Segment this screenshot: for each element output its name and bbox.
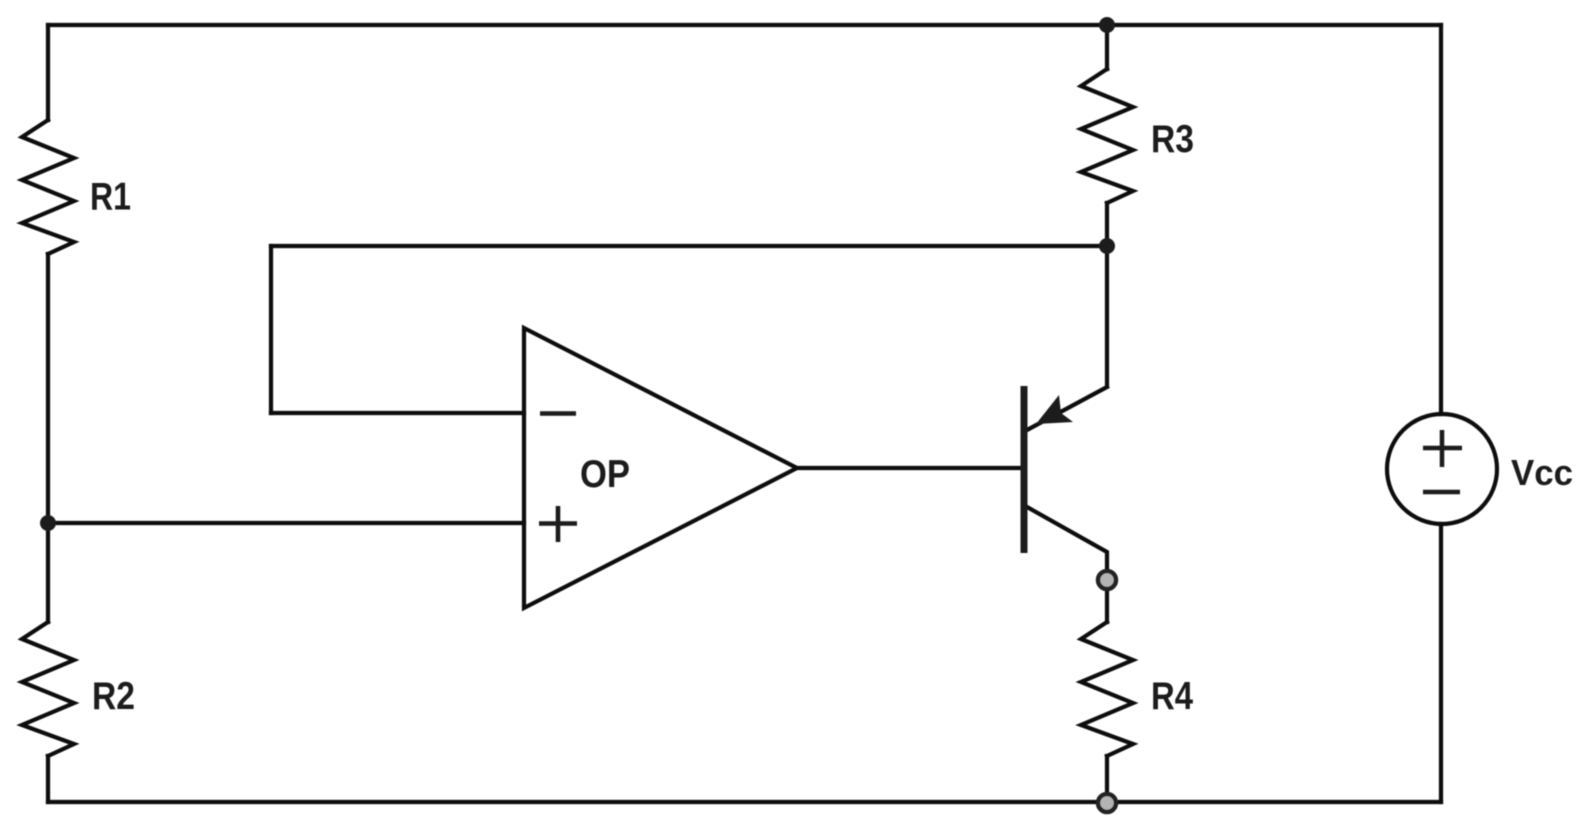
- wire bottom rail: [48, 800, 1441, 804]
- wire op-amp output to base: [797, 466, 1021, 470]
- node junction top rail / R3: [1099, 17, 1115, 33]
- transistor Q1 emitter arrow: [1036, 395, 1073, 424]
- wire left rail lower: [46, 756, 50, 802]
- resistor R2: [22, 622, 74, 756]
- wire R4 top lead: [1105, 592, 1109, 622]
- wire top rail: [48, 23, 1441, 27]
- svg-text:OP: OP: [580, 453, 630, 496]
- wire left rail upper: [46, 25, 50, 120]
- wire feedback left vertical: [269, 246, 273, 413]
- node junction feedback / collector: [1099, 238, 1115, 254]
- node junction left rail / non-inverting input: [40, 515, 56, 531]
- wire feedback top segment: [271, 244, 1107, 248]
- wire R4 bottom lead: [1105, 756, 1109, 792]
- wire non-inverting input: [48, 521, 524, 525]
- wire left rail middle: [46, 254, 50, 622]
- node terminal emitter (gray): [1098, 571, 1116, 589]
- svg-text:R3: R3: [1151, 118, 1194, 161]
- op-amp U1 triangle: [524, 328, 797, 608]
- svg-text:R4: R4: [1151, 675, 1193, 718]
- resistor R4: [1081, 622, 1133, 756]
- voltage source minus symbol: [1423, 490, 1460, 495]
- transistor Q1 emitter diagonal: [1027, 387, 1107, 430]
- op-amp minus symbol: [540, 411, 576, 416]
- op-amp plus symbol: [539, 506, 577, 542]
- transistor Q1 collector diagonal: [1027, 507, 1107, 569]
- wire collector vertical from feedback node: [1105, 246, 1109, 386]
- resistor R1: [22, 120, 74, 254]
- wire R3 bottom lead to feedback node: [1105, 203, 1109, 246]
- wire R3 top lead: [1105, 25, 1109, 69]
- svg-text:R1: R1: [90, 176, 131, 219]
- resistor R3: [1081, 69, 1133, 203]
- voltage source plus symbol: [1423, 430, 1462, 467]
- wire feedback into inverting input: [271, 411, 524, 415]
- wire right rail upper: [1439, 25, 1443, 414]
- transistor Q1 base bar: [1021, 386, 1028, 553]
- wire right rail lower: [1439, 524, 1443, 802]
- voltage source Vcc circle: [1387, 414, 1497, 524]
- node terminal bottom rail (gray): [1098, 794, 1116, 812]
- svg-text:Vcc: Vcc: [1511, 452, 1573, 493]
- svg-text:R2: R2: [92, 675, 135, 718]
